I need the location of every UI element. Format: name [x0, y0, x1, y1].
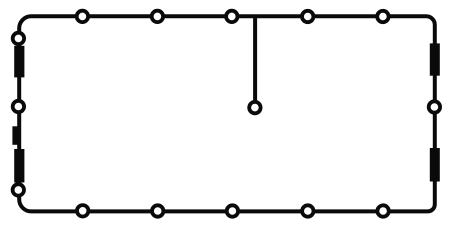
left bar 1	[14, 46, 24, 78]
bolt hole top 4	[302, 11, 313, 22]
bolt hole top 1	[77, 11, 88, 22]
bolt hole top 2	[152, 11, 163, 22]
bolt hole right	[429, 101, 440, 112]
bolt hole left 3	[13, 184, 24, 195]
bolt hole center stem	[249, 102, 260, 113]
bolt hole bottom 2	[152, 205, 163, 216]
left bar 2	[14, 149, 24, 183]
bolt hole left 2	[13, 101, 24, 112]
bolt hole bottom 1	[77, 205, 88, 216]
bolt hole bottom 5	[377, 205, 388, 216]
bolt hole top 3	[226, 11, 237, 22]
bolt hole bottom 3	[227, 205, 238, 216]
right bar 2	[430, 148, 440, 182]
left tab	[12, 126, 18, 145]
gasket perimeter wire	[19, 16, 435, 211]
center stem wire	[253, 17, 257, 101]
bolt hole left 1	[13, 33, 24, 44]
bolt hole top 5	[377, 11, 388, 22]
bolt hole bottom 4	[302, 205, 313, 216]
right bar 1	[430, 43, 440, 75]
